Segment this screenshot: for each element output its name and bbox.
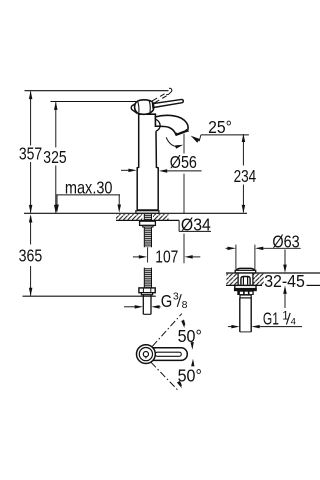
svg-text:32-45: 32-45 [264, 271, 305, 291]
svg-text:107: 107 [155, 246, 178, 266]
svg-text:Ø56: Ø56 [170, 152, 197, 172]
svg-text:Ø34: Ø34 [181, 214, 211, 234]
svg-text:Ø63: Ø63 [272, 231, 299, 251]
svg-text:357: 357 [19, 144, 42, 164]
svg-text:3: 3 [173, 291, 179, 303]
svg-text:G1: G1 [263, 308, 279, 328]
svg-text:325: 325 [43, 147, 66, 167]
svg-text:max.30: max.30 [65, 178, 113, 198]
svg-text:25°: 25° [208, 117, 232, 137]
svg-text:8: 8 [182, 299, 188, 311]
svg-text:50°: 50° [178, 326, 202, 346]
svg-text:4: 4 [291, 317, 296, 328]
svg-text:G: G [161, 291, 173, 311]
svg-text:234: 234 [234, 166, 257, 186]
svg-text:50°: 50° [178, 366, 202, 386]
svg-text:365: 365 [19, 245, 43, 265]
